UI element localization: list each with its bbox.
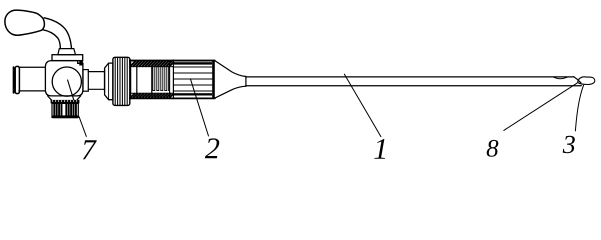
- leader line 3: [575, 85, 583, 131]
- spring chamber left wall: [151, 66, 153, 93]
- body corner block: [79, 61, 83, 66]
- barrel inner wall left: [136, 66, 138, 93]
- lever knob: [5, 10, 45, 35]
- connector washer: [105, 63, 113, 100]
- cone bottom edge: [215, 86, 246, 98]
- ribbed section lines: [173, 67, 212, 91]
- left tube: [19, 67, 46, 91]
- ribbed section bottom thick band: [173, 93, 212, 95]
- valve plug circle: [52, 67, 81, 96]
- valve slot line: [68, 80, 74, 101]
- ribbed section top thick band: [173, 62, 212, 64]
- barrel outline: [130, 60, 215, 99]
- ribbed section left edge: [172, 60, 174, 99]
- left end cap: [13, 67, 15, 93]
- spring coil: [153, 67, 169, 91]
- stopcock body: [45, 61, 83, 96]
- shaft bottom line: [246, 85, 581, 87]
- lever tube outer curve: [44, 18, 71, 49]
- cone-shaft junction: [245, 76, 247, 86]
- nut top band: [51, 100, 80, 104]
- barrel right edge: [212, 60, 215, 99]
- bottom hatch band: [130, 92, 173, 94]
- top hatch band: [131, 61, 174, 66]
- right tube: [88, 70, 104, 91]
- svg-text:3: 3: [562, 130, 576, 159]
- body-nut shoulders: [48, 96, 81, 100]
- tip bend: [574, 77, 581, 83]
- shaft top line: [246, 76, 574, 78]
- nut body: [52, 103, 78, 117]
- spring chamber right wall: [169, 61, 171, 97]
- tip notch crescent: [554, 77, 567, 78]
- tip loop: [578, 77, 595, 85]
- svg-text:1: 1: [373, 133, 388, 166]
- right tube base collar: [83, 70, 88, 92]
- leader line 1: [344, 74, 381, 136]
- svg-text:2: 2: [205, 132, 220, 165]
- lever collar: [58, 49, 76, 55]
- svg-text:8: 8: [486, 135, 499, 162]
- cone top edge: [215, 61, 246, 77]
- leader line 7: [79, 117, 86, 137]
- knurled ring: [113, 57, 130, 105]
- leader line 8: [504, 83, 578, 130]
- leader line 2: [190, 79, 208, 136]
- svg-text:7: 7: [81, 134, 97, 166]
- top flange plate: [52, 55, 83, 61]
- lever tube inner curve: [43, 30, 60, 49]
